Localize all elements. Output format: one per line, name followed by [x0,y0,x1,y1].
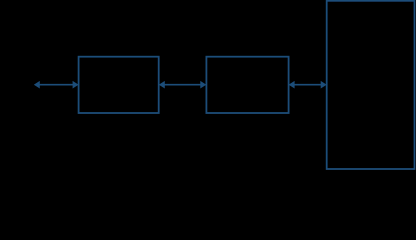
wire W1 (double-headed arrow, free end to B1) [35,82,78,88]
block B1 (left box) [79,57,159,113]
wire W2 (double-headed arrow, B1 to B2) [160,82,206,88]
wire W3 (double-headed arrow, B2 to B3) [290,82,326,88]
block B2 (middle box) [206,57,288,113]
block B3 (right box) [327,1,415,169]
